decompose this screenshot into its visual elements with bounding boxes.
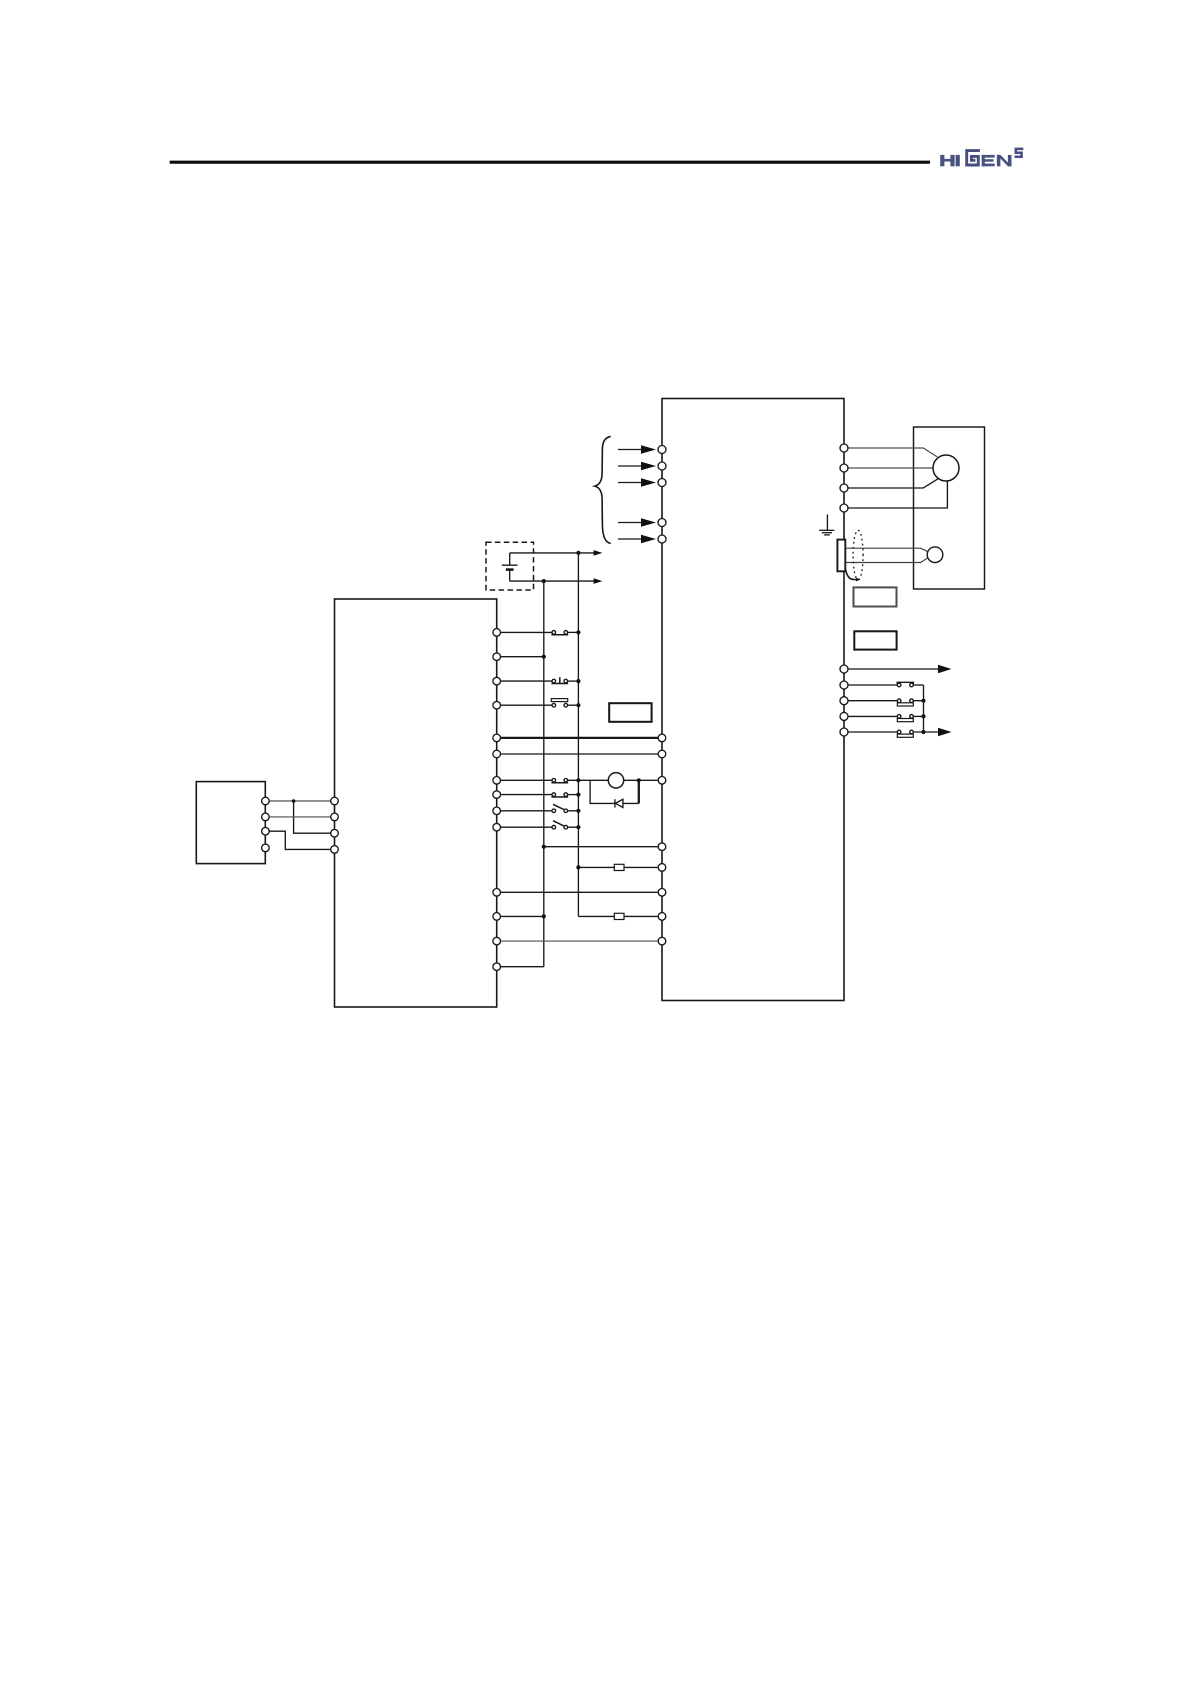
terminal DO1 bbox=[840, 681, 848, 689]
terminal G24 left bbox=[493, 750, 501, 758]
wire motor U bbox=[848, 448, 937, 457]
terminal brake right bbox=[658, 777, 666, 785]
junction DO2 bbox=[921, 699, 925, 703]
contact K4 bbox=[897, 730, 913, 737]
junction COM bbox=[542, 655, 546, 659]
row DI3 wire bbox=[497, 704, 579, 706]
terminal P24 right bbox=[658, 734, 666, 742]
resistor R1 bbox=[614, 864, 624, 870]
arrow S bbox=[641, 462, 656, 471]
wire t input bbox=[618, 538, 642, 540]
junction DO4 bbox=[921, 730, 925, 734]
arrow T bbox=[641, 478, 656, 487]
row DI6 wire bbox=[497, 810, 579, 812]
terminal DI2 bbox=[493, 677, 501, 685]
terminal COM bbox=[493, 653, 501, 661]
host controller box bbox=[335, 599, 497, 1007]
terminal op2 bbox=[262, 813, 270, 821]
switch SW6 bbox=[552, 804, 568, 812]
terminal gnd right bbox=[658, 937, 666, 945]
junction common bbox=[542, 845, 546, 849]
terminal DI3 bbox=[493, 701, 501, 709]
motor box bbox=[914, 427, 985, 589]
wire encoder A bbox=[845, 548, 928, 552]
row brake wire bbox=[497, 779, 662, 781]
contact K3 bbox=[897, 715, 913, 722]
motor M bbox=[933, 455, 959, 481]
terminal R bbox=[658, 446, 666, 454]
wire row sign bbox=[497, 891, 662, 893]
terminal pulse B right bbox=[658, 913, 666, 921]
wire monitor out bbox=[848, 668, 939, 670]
wire P24 bold bbox=[497, 737, 662, 739]
relay RY coil bbox=[608, 773, 623, 788]
HIGEN logo bbox=[940, 149, 1023, 166]
terminal DI1 bbox=[493, 629, 501, 637]
terminal r bbox=[658, 519, 666, 527]
terminal sign left bbox=[493, 889, 501, 897]
switch SW7 bbox=[552, 821, 568, 829]
terminal P24 left bbox=[493, 734, 501, 742]
terminal V bbox=[840, 464, 848, 472]
resistor R2 bbox=[614, 913, 624, 919]
row DO3 wire bbox=[848, 715, 924, 717]
junction battery plus bbox=[576, 551, 580, 555]
battery BAT bbox=[502, 553, 518, 581]
junction DI1 bbox=[576, 630, 580, 634]
cable shield bbox=[853, 530, 863, 579]
bus wire 1 bbox=[543, 581, 545, 967]
wire pulse B feed bbox=[497, 915, 544, 917]
arrow monitor out bbox=[938, 665, 952, 673]
wire S input bbox=[618, 465, 642, 467]
row DI1 wire bbox=[497, 631, 579, 633]
bus wire 2 bbox=[577, 553, 579, 917]
junction DO3 bbox=[921, 714, 925, 718]
junction DI6 bbox=[576, 809, 580, 813]
arrow shield drain bbox=[856, 578, 860, 582]
terminal E bbox=[840, 504, 848, 512]
servo drive box bbox=[662, 399, 844, 1001]
wire op RX bbox=[265, 816, 334, 818]
contact SW2 bbox=[551, 677, 568, 683]
operator box bbox=[196, 782, 265, 864]
terminal DO4 bbox=[840, 728, 848, 736]
encoder PG bbox=[927, 547, 943, 563]
wire T input bbox=[618, 482, 642, 484]
junction DI5 bbox=[576, 793, 580, 797]
terminal t bbox=[658, 535, 666, 543]
terminal pulse B left bbox=[493, 913, 501, 921]
label box CN2 bbox=[854, 587, 897, 606]
terminal bus return bbox=[493, 963, 501, 971]
row DO2 wire bbox=[848, 700, 924, 702]
terminal sign right bbox=[658, 889, 666, 897]
contact SW3 bbox=[551, 699, 567, 707]
encoder connector CN2 bbox=[837, 540, 845, 572]
row DI5 wire bbox=[497, 794, 579, 796]
label box CN3 bbox=[609, 703, 651, 722]
ground bbox=[819, 515, 834, 535]
diode D1 loop bbox=[590, 780, 639, 807]
terminal host4 bbox=[331, 846, 339, 854]
wire motor W bbox=[848, 479, 938, 488]
junction DI2 bbox=[576, 679, 580, 683]
header rule bbox=[170, 161, 930, 164]
row DI2 wire bbox=[497, 680, 579, 682]
arrow DO4 bbox=[938, 728, 952, 736]
terminal U bbox=[840, 444, 848, 452]
wire common to drive bbox=[544, 846, 662, 848]
contact SW4 bbox=[551, 779, 568, 783]
terminal DI6 bbox=[493, 807, 501, 815]
contact SW1 bbox=[551, 631, 568, 635]
wire R input bbox=[618, 449, 642, 451]
junction battery minus bbox=[542, 579, 546, 583]
wire encoder B bbox=[845, 558, 928, 563]
junction brake bus bbox=[576, 778, 580, 782]
terminal DI5 bbox=[493, 791, 501, 799]
terminal W bbox=[840, 484, 848, 492]
wire shield drain bbox=[846, 569, 857, 579]
bus DO common bbox=[923, 685, 925, 732]
terminal op4 bbox=[262, 844, 270, 852]
row DO4 wire bbox=[848, 731, 939, 733]
terminal brake left bbox=[493, 777, 501, 785]
terminal S bbox=[658, 462, 666, 470]
arrow battery plus bbox=[594, 550, 603, 556]
arrow t bbox=[641, 535, 656, 544]
terminal pulse A bbox=[658, 864, 666, 872]
arrow R bbox=[641, 445, 656, 454]
wire battery minus bbox=[510, 580, 595, 582]
terminal host1 bbox=[331, 797, 339, 805]
wire op branch bbox=[294, 801, 335, 833]
junction op TX bbox=[292, 799, 296, 803]
terminal monitor bbox=[840, 665, 848, 673]
terminal T bbox=[658, 479, 666, 487]
wire bus return bbox=[497, 966, 544, 968]
brace for power inputs bbox=[595, 436, 611, 543]
wire pulse B bbox=[578, 915, 662, 917]
terminal gnd left bbox=[493, 937, 501, 945]
wire G24 bbox=[497, 753, 662, 755]
label box CN1 bbox=[854, 631, 896, 649]
terminal common drive bbox=[658, 843, 666, 851]
row COM wire bbox=[497, 656, 544, 658]
wire battery plus bbox=[510, 552, 595, 554]
terminal DI7 bbox=[493, 823, 501, 831]
battery dashed enclosure bbox=[486, 542, 534, 590]
junction DI3 bbox=[576, 703, 580, 707]
row DI7 wire bbox=[497, 826, 579, 828]
wire op TX bbox=[265, 800, 334, 802]
junction pulse A bbox=[576, 865, 580, 869]
contact SW5 bbox=[551, 793, 568, 797]
terminal G24 right bbox=[658, 750, 666, 758]
junction pulse B bbox=[542, 914, 546, 918]
terminal DO3 bbox=[840, 712, 848, 720]
terminal host3 bbox=[331, 829, 339, 837]
wire r input bbox=[618, 522, 642, 524]
contact K2 bbox=[897, 699, 913, 706]
junction relay out bbox=[637, 778, 641, 782]
wire motor E bbox=[848, 481, 947, 508]
wire motor V bbox=[848, 467, 933, 469]
junction DI7 bbox=[576, 825, 580, 829]
wire pulse A bbox=[578, 866, 662, 868]
contact K1 bbox=[897, 682, 913, 687]
terminal host2 bbox=[331, 813, 339, 821]
wire row gnd bbox=[497, 940, 662, 942]
terminal op1 bbox=[262, 797, 270, 805]
terminal op3 bbox=[262, 827, 270, 835]
arrow r bbox=[641, 518, 656, 527]
row DO1 wire bbox=[848, 684, 924, 686]
arrow battery minus bbox=[594, 578, 603, 584]
terminal DO2 bbox=[840, 697, 848, 705]
wire op GND bbox=[265, 831, 334, 849]
